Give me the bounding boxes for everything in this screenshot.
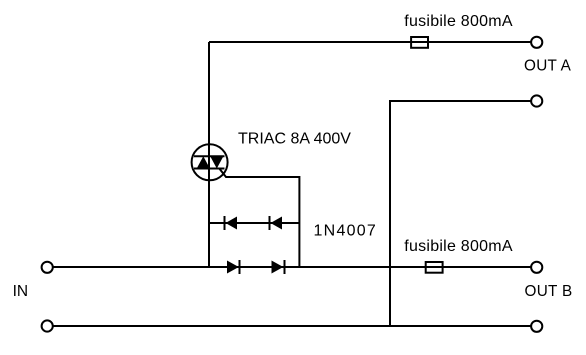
svg-text:OUT B: OUT B bbox=[525, 283, 573, 300]
svg-text:1N4007: 1N4007 bbox=[314, 222, 378, 239]
svg-text:IN: IN bbox=[13, 283, 29, 300]
svg-text:TRIAC 8A 400V: TRIAC 8A 400V bbox=[238, 131, 351, 148]
svg-text:fusibile 800mA: fusibile 800mA bbox=[404, 13, 513, 30]
svg-text:fusibile 800mA: fusibile 800mA bbox=[404, 238, 513, 255]
svg-text:OUT A: OUT A bbox=[524, 58, 572, 75]
